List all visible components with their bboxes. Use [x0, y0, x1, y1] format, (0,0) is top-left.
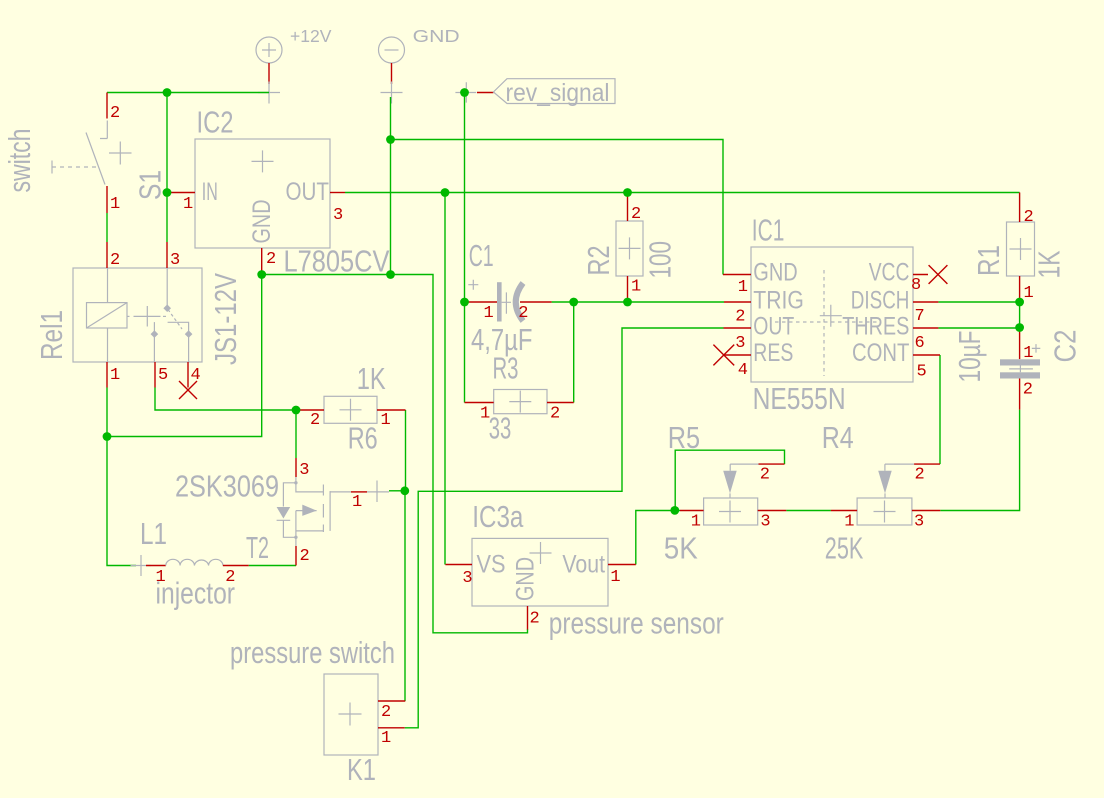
regulator IC2 L7805CV	[171, 105, 390, 279]
svg-text:3: 3	[760, 513, 770, 532]
svg-text:1: 1	[352, 493, 362, 512]
svg-text:10µF: 10µF	[952, 331, 987, 383]
resistor R1	[971, 193, 1066, 304]
potentiometer R4	[822, 420, 941, 566]
svg-text:CONT: CONT	[852, 339, 909, 367]
junction VS riser tap	[441, 188, 450, 197]
svg-text:pressure sensor: pressure sensor	[549, 605, 724, 640]
svg-text:VS: VS	[477, 551, 506, 579]
svg-text:2: 2	[110, 104, 120, 123]
svg-text:Vout: Vout	[562, 551, 605, 579]
svg-text:IC3a: IC3a	[472, 499, 524, 534]
svg-text:1: 1	[381, 411, 391, 430]
svg-text:R3: R3	[493, 351, 519, 386]
wire L1 pin2 to T2 source	[249, 565, 296, 567]
svg-text:switch: switch	[2, 129, 37, 193]
wire R1/C2 column	[1019, 302, 1021, 328]
svg-text:+12V: +12V	[290, 26, 332, 46]
svg-text:1: 1	[484, 304, 494, 323]
svg-text:1: 1	[183, 195, 193, 214]
wire Rel1 pin5 to R6	[155, 388, 296, 411]
svg-text:2: 2	[381, 703, 391, 722]
svg-text:2: 2	[530, 609, 540, 628]
svg-text:2SK3069: 2SK3069	[175, 469, 279, 504]
junction R2 pin1 node	[623, 298, 632, 307]
wire left rail Rel1 pin1 to L1	[107, 388, 136, 566]
svg-text:2: 2	[1024, 208, 1034, 227]
svg-text:R5: R5	[668, 420, 700, 455]
svg-text:NE555N: NE555N	[753, 381, 846, 416]
wire DISCH to R1	[938, 301, 1019, 303]
junction R5 pin1 node	[670, 506, 679, 515]
svg-text:3: 3	[735, 334, 745, 353]
svg-text:RES: RES	[753, 339, 793, 367]
svg-text:2: 2	[110, 251, 120, 270]
wire S1 pin1 to Rel1 pin2	[106, 213, 108, 242]
svg-text:R4: R4	[822, 420, 854, 455]
svg-text:GND: GND	[511, 557, 539, 601]
svg-text:2: 2	[310, 411, 320, 430]
svg-text:2: 2	[915, 466, 925, 485]
svg-text:K1: K1	[347, 752, 376, 787]
wire Vout to R5 pin1	[636, 511, 680, 565]
svg-text:1: 1	[631, 278, 641, 297]
svg-text:S1: S1	[133, 170, 168, 200]
svg-text:injector: injector	[156, 576, 236, 611]
svg-text:Rel1: Rel1	[34, 310, 69, 360]
svg-text:4: 4	[191, 366, 201, 385]
svg-text:1K: 1K	[1031, 250, 1066, 278]
wire R6 to T2 drain	[295, 410, 297, 458]
wire R6 pin1 down	[405, 410, 407, 491]
wire VS riser	[444, 193, 446, 565]
svg-text:3: 3	[333, 206, 343, 225]
wire CONT to R4 wiper	[939, 355, 941, 464]
capacitor C2	[952, 328, 1083, 410]
junction at S1 pin2 rail	[163, 88, 172, 97]
svg-text:rev_signal: rev_signal	[506, 79, 610, 107]
svg-text:GND: GND	[248, 200, 276, 244]
resistor R3	[465, 351, 574, 446]
svg-text:TRIG: TRIG	[753, 286, 804, 314]
wire rev_signal column	[464, 93, 466, 303]
svg-text:IN: IN	[202, 178, 218, 206]
svg-text:3: 3	[462, 569, 472, 588]
svg-text:5: 5	[917, 363, 927, 382]
svg-text:1: 1	[1024, 284, 1034, 303]
svg-text:3: 3	[299, 461, 309, 480]
svg-text:DISCH: DISCH	[851, 286, 910, 314]
svg-text:6: 6	[915, 334, 925, 353]
svg-text:GND: GND	[413, 26, 460, 46]
svg-text:L1: L1	[140, 516, 167, 551]
svg-text:L7805CV: L7805CV	[284, 244, 390, 279]
junction C2 pin1 node	[1015, 323, 1024, 332]
timer IC1 NE555N	[713, 213, 947, 416]
svg-text:THRES: THRES	[842, 313, 909, 341]
supply GND symbol	[379, 26, 460, 104]
svg-text:2: 2	[550, 405, 560, 424]
transistor T2 2SK3069	[175, 458, 389, 566]
wire C1/R3 left column	[464, 302, 466, 403]
junction R2 pin2 tap	[623, 188, 632, 197]
pressure switch K1	[230, 635, 405, 787]
svg-text:R2: R2	[581, 246, 616, 276]
supply +12V symbol	[256, 26, 332, 104]
svg-text:3: 3	[170, 251, 180, 270]
svg-text:1K: 1K	[357, 361, 386, 396]
junction T2 gate node	[400, 486, 409, 495]
net label rev_signal	[455, 79, 615, 107]
inductor L1 injector	[131, 516, 249, 611]
svg-text:100: 100	[643, 241, 678, 279]
svg-text:1: 1	[691, 513, 701, 532]
svg-text:IC1: IC1	[752, 213, 785, 248]
wire S1 column to IC2 IN	[167, 93, 171, 243]
wire +12V rail	[107, 92, 269, 94]
junction C1 pin1 node	[460, 298, 469, 307]
wire C1/R3 right column	[573, 302, 575, 403]
junction R6 pin2 node	[292, 406, 301, 415]
wire IC2 GND down to relay coil return	[107, 275, 262, 437]
svg-text:OUT: OUT	[753, 313, 794, 341]
svg-text:1: 1	[110, 195, 120, 214]
svg-text:2: 2	[1023, 381, 1033, 400]
wire R5 pin3 to R4 pin1	[786, 510, 831, 512]
svg-text:GND: GND	[753, 259, 797, 287]
svg-text:3: 3	[914, 513, 924, 532]
svg-text:2: 2	[266, 250, 276, 269]
resistor R6	[296, 361, 406, 456]
svg-text:1: 1	[381, 729, 391, 748]
svg-text:R6: R6	[348, 421, 378, 456]
switch S1	[2, 93, 168, 215]
resistor R2	[581, 193, 678, 303]
svg-text:8: 8	[911, 276, 921, 295]
svg-text:OUT: OUT	[286, 178, 330, 206]
junction C1 pin2 node	[569, 298, 578, 307]
svg-text:25K: 25K	[825, 531, 864, 566]
wire GND branch to IC1 pin1	[391, 140, 724, 275]
junction IC2 IN node	[163, 188, 172, 197]
svg-text:2: 2	[631, 205, 641, 224]
relay Rel1	[34, 242, 243, 399]
wire GND column	[390, 97, 392, 275]
junction at rev_signal tap	[460, 88, 469, 97]
pressure sensor IC3a	[445, 499, 723, 640]
svg-text:1: 1	[738, 278, 748, 297]
svg-text:4: 4	[738, 361, 748, 380]
junction GND column node	[386, 270, 395, 279]
svg-text:C1: C1	[469, 238, 494, 273]
svg-text:2: 2	[518, 304, 528, 323]
junction R1 pin1 node	[1015, 298, 1024, 307]
svg-text:2: 2	[300, 547, 310, 566]
wire GND rail to IC3a	[262, 275, 528, 633]
svg-text:5K: 5K	[664, 531, 698, 566]
wire gate node to K1 pin2	[404, 491, 406, 701]
junction relay coil return	[103, 432, 112, 441]
svg-text:2: 2	[735, 308, 745, 327]
wire IC1 OUT to K1 pin1	[405, 328, 724, 728]
capacitor C1	[465, 238, 552, 357]
junction IC2 GND node	[257, 270, 266, 279]
wire THRES to C2	[938, 327, 1019, 329]
wire R5 pin2 loop	[675, 450, 784, 510]
wire TRIG row	[552, 301, 724, 303]
svg-text:IC2: IC2	[197, 105, 234, 140]
svg-text:C2: C2	[1048, 330, 1083, 363]
wire R4 pin3 to C2 pin2	[940, 410, 1019, 511]
svg-text:1: 1	[844, 513, 854, 532]
svg-text:pressure switch: pressure switch	[230, 635, 395, 670]
junction GND branch	[386, 135, 395, 144]
svg-text:R1: R1	[971, 245, 1006, 276]
svg-text:T2: T2	[246, 530, 269, 565]
svg-text:2: 2	[760, 466, 770, 485]
wire 5V OUT rail	[345, 192, 1020, 194]
svg-text:VCC: VCC	[869, 259, 910, 287]
svg-text:7: 7	[915, 307, 925, 326]
svg-text:33: 33	[489, 411, 512, 446]
svg-text:JS1-12V: JS1-12V	[208, 273, 243, 365]
svg-text:1: 1	[110, 366, 120, 385]
svg-text:1: 1	[610, 568, 620, 587]
potentiometer R5	[664, 420, 787, 566]
wire gate node	[389, 490, 405, 492]
svg-text:5: 5	[158, 366, 168, 385]
svg-text:1: 1	[1023, 344, 1033, 363]
